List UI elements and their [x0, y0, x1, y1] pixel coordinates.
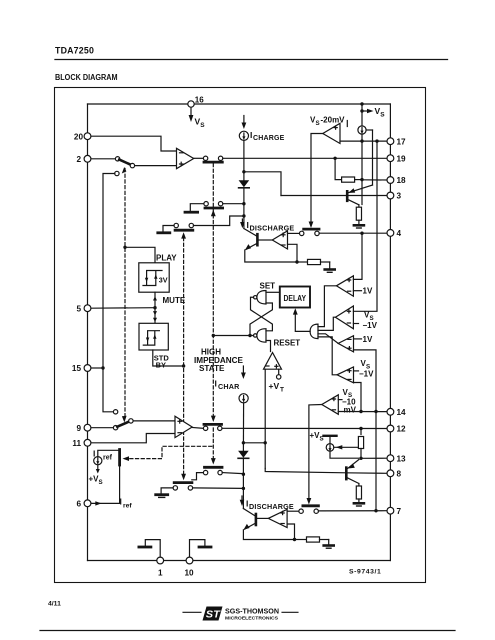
wire C5 output control to lower switch	[307, 405, 322, 505]
svg-text:1: 1	[158, 569, 163, 578]
wire pin 13 stub	[361, 457, 387, 459]
node I-DISCHARGE label (upper)	[240, 219, 294, 233]
transistor Q1	[347, 130, 372, 205]
wire diode to discharge transistor	[242, 189, 245, 229]
svg-text:4/11: 4/11	[48, 601, 61, 608]
wire A3 net to pin8 line	[265, 469, 346, 473]
diode D1	[239, 180, 250, 188]
node I-ref control arrow	[123, 456, 130, 461]
switch S4 (upper state switch b)	[163, 216, 243, 231]
pin 16	[188, 96, 204, 108]
wire Q3 collector to feedback loop	[245, 250, 299, 264]
pin 12	[387, 425, 406, 434]
diode D2 (lower)	[238, 451, 249, 459]
current source VS (top right)	[358, 111, 366, 141]
wire G3 input 4 from comparator C4	[318, 337, 337, 375]
contact pad for S7	[156, 495, 168, 498]
node VS at pin 16	[189, 108, 206, 130]
wire latch cross-couple	[248, 297, 272, 337]
transistor Q2	[346, 460, 359, 484]
switch SW9 (pin9 input mute switch)	[113, 410, 133, 430]
comparator A4 (lower discharge comparator)	[268, 509, 287, 527]
pin 17	[387, 137, 406, 146]
label C3 reference 1V	[354, 335, 373, 344]
text page number 4/11	[48, 601, 61, 608]
dashed control reset-line	[212, 164, 214, 461]
block MUTE (std-by)	[139, 323, 168, 350]
label C2 reference VS-1V	[353, 311, 377, 330]
footer rule	[40, 630, 455, 632]
wire pin 3 line (base of Q1)	[281, 195, 387, 197]
node I-DISCHARGE label (lower)	[240, 496, 294, 511]
wire pin19 node to resistor	[333, 157, 341, 180]
svg-text:19: 19	[397, 154, 407, 163]
wire G1 to DELAY	[266, 291, 280, 293]
svg-text:CHARGE: CHARGE	[253, 135, 285, 142]
ground (Q2 collector)	[354, 503, 364, 506]
wire A2 output control to SW5	[309, 134, 323, 229]
svg-text:17: 17	[397, 137, 407, 146]
svg-text:1V: 1V	[363, 287, 373, 296]
svg-text:BY: BY	[156, 361, 166, 370]
svg-text:2: 2	[76, 155, 81, 164]
node +VT input	[269, 369, 285, 393]
wire diode to lower discharge transistor	[242, 459, 245, 508]
svg-text:18: 18	[397, 176, 407, 185]
wire VS2 to resistor node	[334, 445, 359, 449]
svg-text:TDA7250: TDA7250	[55, 46, 94, 56]
wire A2 input to pin 17	[340, 139, 387, 142]
dashed control stdby to I-ref	[129, 446, 212, 458]
node stdby-line arrows	[181, 232, 186, 480]
svg-text:S: S	[316, 120, 320, 127]
ground (lower loop)	[324, 540, 334, 549]
svg-text:S: S	[380, 112, 385, 119]
svg-text:3V: 3V	[159, 276, 168, 285]
wire SW1 to op-amp non-inverting input	[135, 165, 177, 167]
svg-text:+V: +V	[269, 381, 280, 391]
wire A4 minus input loop	[287, 524, 294, 540]
wire pin 9 to lower switch	[91, 427, 113, 429]
svg-text:−1V: −1V	[359, 370, 374, 379]
svg-text:20: 20	[74, 132, 84, 141]
resistor R6 (Q2 collector)	[356, 484, 361, 503]
svg-text:I: I	[215, 379, 217, 389]
pin 6	[76, 500, 90, 509]
current source VS2 (Q2 bias)	[326, 444, 358, 459]
wire G2 output to reset-line	[213, 335, 253, 337]
svg-text:16: 16	[195, 96, 204, 105]
svg-text:S: S	[200, 122, 205, 129]
svg-text:mV: mV	[344, 406, 357, 415]
wire G3 input 3 from comparator C3	[318, 334, 338, 344]
switch S3 (upper state switch a)	[190, 202, 242, 211]
pin 18	[387, 176, 406, 185]
gate G1 (SET nand)	[254, 282, 276, 305]
svg-text:BLOCK DIAGRAM: BLOCK DIAGRAM	[55, 72, 118, 82]
node MUTE junction arrows	[153, 292, 186, 323]
pin 11	[72, 439, 91, 448]
svg-text:11: 11	[72, 439, 81, 448]
wire I-ref to control bar	[98, 450, 120, 456]
svg-text:3: 3	[397, 192, 402, 201]
op-amp U1 (upper input buffer)	[177, 148, 194, 168]
logo SGS-THOMSON text	[225, 607, 298, 622]
label C1 reference -1V	[353, 287, 373, 296]
pin 8	[387, 470, 402, 479]
caption BLOCK DIAGRAM	[55, 72, 118, 82]
wire SW2 to pin 19	[223, 157, 387, 159]
svg-text:14: 14	[397, 408, 407, 417]
block PLAY	[139, 254, 177, 293]
node SW1 NC contact	[103, 171, 119, 368]
wire Q4 base to comparator	[257, 517, 268, 519]
svg-text:1V: 1V	[363, 335, 373, 344]
comparator A3 (+VT)	[264, 353, 282, 370]
pin 7	[387, 507, 402, 516]
wire mute reference bus (pin15 to lower switch)	[101, 366, 113, 412]
node pin10 contact hook	[190, 540, 212, 557]
wire A1 minus input loop	[288, 244, 298, 262]
wire C4 minus down to pin14 line	[354, 383, 363, 414]
text S-9743/1	[349, 569, 381, 576]
pin 2	[76, 155, 90, 164]
svg-text:ref: ref	[103, 455, 113, 462]
title TDA7250	[55, 46, 94, 56]
wire pin 14 line	[338, 411, 386, 413]
pin 13	[387, 454, 406, 463]
pin 15	[72, 364, 91, 373]
svg-text:10: 10	[185, 569, 195, 578]
svg-text:SGS-THOMSON: SGS-THOMSON	[225, 607, 279, 616]
svg-text:8: 8	[397, 470, 402, 479]
wire I-ref bar to pin 6	[91, 465, 132, 510]
pin 19	[387, 154, 406, 163]
svg-text:4: 4	[397, 229, 402, 238]
switch SW1 (pin2 input mute switch)	[115, 157, 134, 168]
node reset-line arrows	[211, 210, 216, 465]
wire charge node to pin3 line	[244, 172, 281, 196]
svg-text:T: T	[280, 387, 284, 394]
comparator C2 (VS-1V upper)	[335, 306, 353, 329]
figure frame	[55, 88, 426, 583]
pin 20	[74, 132, 91, 141]
svg-text:S: S	[99, 479, 103, 486]
contact pad for S3	[185, 211, 198, 214]
comparator C4 (VS-1V lower)	[337, 367, 354, 383]
svg-text:MICROELECTRONICS: MICROELECTRONICS	[225, 615, 279, 621]
wire SW9 to op-amp non-inverting input	[133, 420, 175, 422]
wire A3 minus input down	[264, 369, 267, 468]
node STD BY label	[154, 354, 170, 370]
svg-text:PLAY: PLAY	[156, 254, 177, 263]
current source I-CHARGE	[239, 116, 284, 143]
wire pin 18 stub	[362, 179, 387, 181]
pin 10	[185, 557, 195, 577]
svg-text:ST: ST	[206, 609, 221, 620]
svg-text:DELAY: DELAY	[284, 293, 307, 303]
svg-text:-20mV: -20mV	[321, 116, 346, 125]
wire play-line to PLAY block	[125, 247, 155, 262]
wire VS node vertical	[361, 141, 363, 204]
wire I-CHARGE down to diode	[242, 140, 245, 180]
transistor Q3 (upper discharge)	[244, 229, 258, 251]
text HIGH IMPEDANCE STATE	[194, 348, 244, 374]
wire STD BY to dashed control	[153, 350, 186, 368]
header rule	[55, 59, 448, 61]
wire G3 input 2 from comparator C2	[318, 317, 335, 330]
dashed control play-line	[124, 169, 126, 417]
pin 1	[157, 557, 164, 577]
wire C1 plus from pin4 node	[353, 233, 362, 279]
node +VS supply (Q2 area)	[310, 431, 337, 444]
dashed control stdby-line	[183, 238, 185, 477]
label C5 reference VS-10mV	[338, 388, 356, 415]
resistor R4 (lower loop)	[295, 537, 329, 542]
comparator C5 (VS-10mV)	[322, 395, 339, 415]
wire pin 8 line (base of Q2)	[346, 472, 387, 475]
op-amp U2 (lower input buffer)	[175, 416, 192, 437]
current source I-CHAR (lower)	[215, 366, 249, 403]
current source I-ref	[93, 449, 113, 465]
wire Q3 base to comparator	[259, 239, 273, 241]
svg-text:SET: SET	[260, 282, 276, 291]
wire pin15 stub	[91, 367, 103, 369]
svg-text:I: I	[93, 449, 95, 459]
svg-text:−1V: −1V	[363, 321, 378, 330]
right bus wire	[389, 104, 391, 561]
switch S7 (lower state switch b)	[161, 483, 242, 494]
bottom rail wire	[88, 560, 391, 562]
wire G3 input 1 from comparator C1	[318, 286, 336, 327]
pin 3	[387, 192, 402, 201]
top rail wire	[88, 103, 391, 105]
node +VS below I-ref	[89, 465, 103, 486]
comparator A2 (VS-20mV)	[310, 116, 347, 144]
comparator C3 (1V)	[338, 336, 353, 352]
switch SW10 (lower op-amp output switch)	[192, 424, 222, 430]
comparator A1 (upper discharge comparator)	[272, 231, 287, 249]
gate G3 (and gate)	[310, 324, 318, 339]
svg-text:RESET: RESET	[274, 338, 301, 347]
ground (upper loop)	[325, 262, 335, 272]
contact pad for S4	[158, 231, 170, 234]
wire C2 plus from pin17 node	[353, 141, 377, 311]
node play-line arrows	[122, 167, 127, 423]
svg-text:MUTE: MUTE	[163, 296, 186, 305]
resistor R2 (pin19 to VS node)	[342, 177, 364, 182]
gate G2 (RESET nand)	[254, 329, 301, 348]
svg-text:12: 12	[397, 425, 407, 434]
svg-text:15: 15	[72, 364, 82, 373]
svg-text:7: 7	[397, 507, 402, 516]
wire SW5 to pin 4	[319, 232, 386, 235]
pin 4	[387, 229, 402, 238]
svg-text:5: 5	[76, 304, 81, 313]
wire pin 5 to mute node	[91, 306, 156, 309]
wire G2 input from comparator A3	[266, 341, 271, 352]
wire SW8 to pin 7	[318, 510, 386, 512]
resistor R3 (Q1 collector)	[356, 205, 361, 225]
resistor R5 (pin12 to pin13)	[358, 437, 363, 460]
wire G3 output to DELAY	[293, 308, 310, 331]
resistor R1 (upper loop)	[297, 259, 330, 264]
svg-text:CHAR: CHAR	[218, 382, 240, 391]
wire C3 net continues to pin7 line	[374, 412, 377, 513]
switch SW2 (upper op-amp output switch)	[194, 156, 223, 162]
node +VS supply arrow (top right)	[360, 102, 385, 118]
label C4 reference VS-1V	[354, 359, 375, 379]
wire C3 minus down to pin14 line	[354, 350, 378, 413]
left bus wire	[87, 104, 89, 561]
pin 14	[387, 408, 406, 417]
wire SW10 to pin 12	[222, 427, 387, 430]
wire pin20 to op-amp inverting input	[91, 136, 176, 151]
svg-text:STATE: STATE	[199, 364, 225, 373]
switch SW8 (lower discharge switch)	[287, 506, 318, 514]
ground (Q1 collector)	[354, 225, 364, 228]
svg-text:S-9743/1: S-9743/1	[349, 569, 381, 576]
wire I-CHAR down to lower diode	[242, 403, 245, 451]
wire charge node to A3 net	[243, 442, 265, 444]
wire pin12 node down	[360, 429, 362, 435]
node pin1 contact hook	[139, 540, 160, 557]
svg-text:6: 6	[76, 500, 81, 509]
wire pin2 to input switch	[91, 158, 115, 160]
switch S6 (lower state switch a)	[192, 467, 242, 480]
wire pin11 to op-amp inverting input	[91, 434, 175, 443]
logo ST	[183, 607, 223, 621]
wire Q4 collector to feedback loop	[243, 530, 296, 541]
pin 5	[76, 304, 90, 313]
svg-text:ref: ref	[123, 503, 132, 510]
svg-text:9: 9	[76, 424, 81, 433]
comparator C1 (-1V)	[336, 276, 353, 296]
contact bar I-ref	[118, 450, 121, 466]
svg-text:13: 13	[397, 454, 407, 463]
svg-text:I: I	[120, 497, 122, 507]
pin 9	[76, 424, 90, 433]
block DELAY	[280, 287, 310, 308]
transistor Q4 (lower discharge)	[243, 509, 256, 530]
switch SW5 (upper discharge switch)	[288, 229, 320, 235]
